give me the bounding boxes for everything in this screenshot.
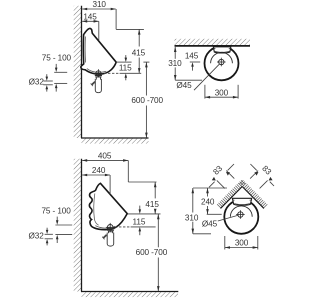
svg-text:240: 240 xyxy=(201,198,215,207)
urinal bowl inner rim arc fig2 xyxy=(211,52,233,63)
dimension 600-700 fig1 xyxy=(145,62,147,95)
svg-text:Ø32: Ø32 xyxy=(29,78,45,87)
top extension line fig1 xyxy=(116,28,144,30)
svg-text:415: 415 xyxy=(145,200,159,209)
urinal bowl outer circle fig2 xyxy=(205,46,239,80)
svg-text:415: 415 xyxy=(132,48,146,57)
urinal body side profile fig1 xyxy=(81,28,116,74)
extension line 405 fig3 xyxy=(127,160,129,182)
urinal bowl outer circle fig4 xyxy=(224,200,258,234)
outlet pipe fig3 xyxy=(107,231,109,233)
waste pipe stub fig3 xyxy=(103,235,106,238)
wall hatching fig2 xyxy=(175,39,251,45)
siphon trap fig1 xyxy=(95,79,101,93)
floor line fig1 xyxy=(81,137,149,139)
waste pipe stub fig1 xyxy=(92,82,95,85)
wall line fig2 xyxy=(175,45,251,47)
dimension 600-700 fig3 xyxy=(157,214,159,247)
svg-text:Ø45: Ø45 xyxy=(176,81,192,90)
circle bottom extension line fig2 xyxy=(175,79,202,81)
dimension 310 fig2 xyxy=(174,47,176,80)
rim tip extension line fig1 xyxy=(116,61,131,63)
drain level extension line fig1 xyxy=(120,72,142,74)
urinal bowl inner rim arc fig4 xyxy=(230,206,252,217)
left corner wall line fig4 xyxy=(221,187,243,209)
svg-text:310: 310 xyxy=(93,0,107,9)
dimension 310 fig4 xyxy=(192,188,194,213)
wall line fig3 xyxy=(81,159,83,292)
dimension 145 fig1 xyxy=(82,20,98,22)
dimension 83 left fig4 xyxy=(226,171,234,179)
inner section line fig3 xyxy=(94,194,99,226)
svg-text:Ø32: Ø32 xyxy=(29,232,45,241)
extension/centre line 145 fig1 xyxy=(98,21,100,40)
svg-text:600 -700: 600 -700 xyxy=(136,248,168,257)
dimension 115 fig3 xyxy=(139,206,141,213)
siphon trap fig3 xyxy=(107,233,114,246)
dimension 240 fig3 xyxy=(82,174,110,176)
circle bottom extension line fig4 xyxy=(193,233,211,235)
drain level extension line fig4 xyxy=(207,213,222,215)
inner rim line fig3 xyxy=(95,226,115,229)
drain centre mark fig2 xyxy=(219,59,224,64)
svg-text:Ø45: Ø45 xyxy=(202,219,218,228)
flush spreader cover fig2 xyxy=(213,47,230,53)
apex extension line fig4 xyxy=(193,187,227,189)
svg-text:300: 300 xyxy=(215,88,229,97)
svg-text:145: 145 xyxy=(185,51,199,60)
dimension 300 fig2 xyxy=(204,85,206,99)
svg-text:145: 145 xyxy=(83,13,97,22)
svg-text:300: 300 xyxy=(235,239,249,248)
floor hatching fig3 xyxy=(82,292,179,297)
extension/centre line 240 fig3 xyxy=(109,175,111,194)
dimension 415 fig3 xyxy=(154,182,156,198)
right corner wall line fig4 xyxy=(242,187,264,209)
dimension 415 fig1 xyxy=(138,29,140,46)
svg-text:310: 310 xyxy=(168,59,182,68)
urinal body side profile broken section fig3 xyxy=(89,183,127,229)
dimension 405 fig3 xyxy=(82,159,128,161)
svg-text:600 -700: 600 -700 xyxy=(131,96,163,105)
drain centre mark fig4 xyxy=(238,212,243,217)
svg-text:115: 115 xyxy=(119,63,132,72)
dimension 310 fig1 xyxy=(82,8,116,10)
svg-text:75 - 100: 75 - 100 xyxy=(41,206,71,215)
drain outlet flange fig3 xyxy=(107,228,115,230)
drain centre mark fig1 xyxy=(96,71,101,76)
flush spreader cover fig4 xyxy=(232,198,251,205)
inner back line fig1 xyxy=(84,37,86,63)
drain level extension line fig3 xyxy=(131,226,156,228)
wall line fig1 xyxy=(81,6,83,138)
dimension 83 right fig4 xyxy=(250,171,258,179)
outlet pipe fig1 xyxy=(95,77,97,79)
dimension 240 fig4 xyxy=(207,188,209,197)
wall hatching fig3 xyxy=(74,159,81,292)
svg-text:240: 240 xyxy=(92,166,106,175)
drain centre mark fig3 xyxy=(107,225,113,231)
rim tip extension line fig3 xyxy=(128,213,161,215)
svg-text:405: 405 xyxy=(98,151,112,160)
svg-text:310: 310 xyxy=(185,213,199,222)
top extension line fig3 xyxy=(128,181,156,183)
inner rim line fig1 xyxy=(87,69,106,73)
svg-text:75 - 100: 75 - 100 xyxy=(42,54,72,63)
dimension 300 fig4 xyxy=(224,236,226,250)
drain outlet flange fig1 xyxy=(95,74,102,76)
floor line fig3 xyxy=(81,291,178,293)
wall hatching fig1 xyxy=(74,6,81,138)
extension line 310 fig1 xyxy=(115,9,117,29)
svg-text:115: 115 xyxy=(133,218,146,227)
dimension 115 fig1 xyxy=(125,55,127,60)
corner wall hatching fig4 xyxy=(217,180,267,208)
floor hatching fig1 xyxy=(82,139,149,144)
